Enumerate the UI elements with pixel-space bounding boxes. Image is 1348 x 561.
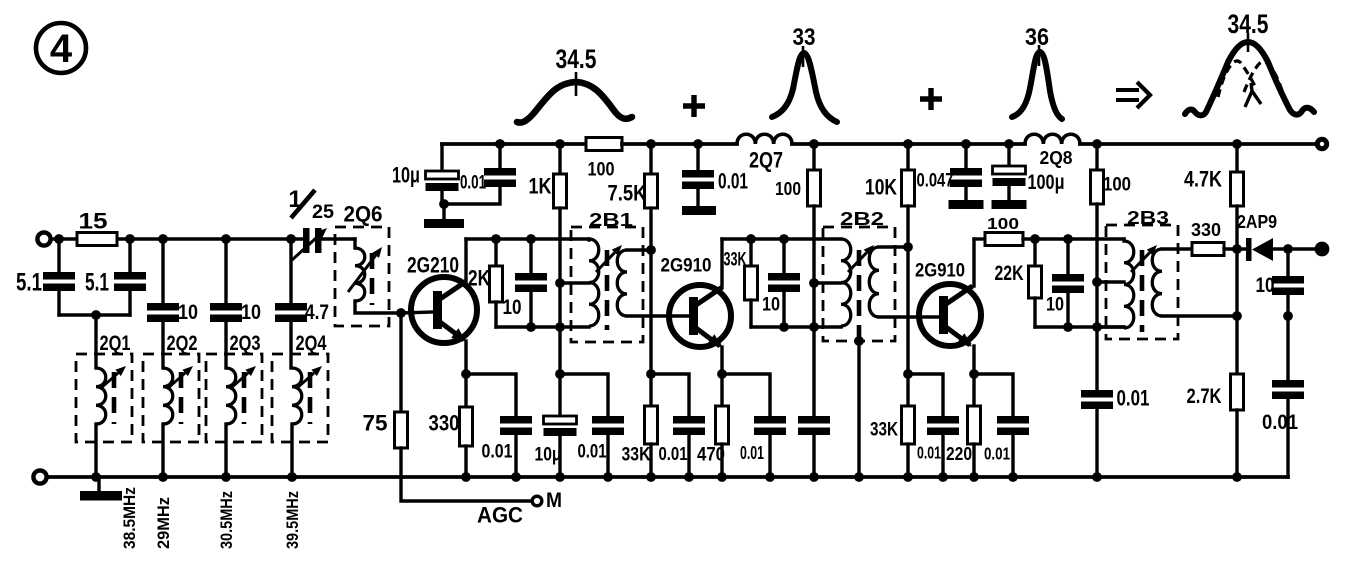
svg-text:100μ: 100μ: [1028, 171, 1065, 194]
adjust arrow of 2Q1: [100, 366, 126, 389]
wire: decoupling 2 to rail: [812, 435, 815, 477]
output terminal (right): [1315, 242, 1330, 257]
wire: 10(3) stub: [1066, 239, 1069, 274]
svg-text:0.01: 0.01: [460, 172, 486, 194]
capacitor 0.01 (base bypass 2): [673, 416, 705, 435]
capacitor 5.1 (first): [43, 272, 75, 291]
wire: 2G210 collector top wire: [466, 237, 589, 240]
junction: top wire at 33K damping: [746, 234, 756, 244]
wire: common to ground: [442, 204, 445, 219]
core of 2Q4: [308, 372, 313, 424]
wire: 2.7K to ground rail: [1235, 410, 1238, 477]
result arrow (double arrow): [1116, 82, 1150, 108]
2B1 secondary coil: [617, 250, 627, 316]
junction: input at 4.7 cap: [286, 234, 296, 244]
wire: 100(3) to 2B3 tap (crosses top wire): [1095, 204, 1098, 282]
resistor 2K (damping, stage 1): [490, 266, 503, 302]
junction: 2B2 secondary top: [903, 242, 913, 252]
tick on composite curve: [1247, 33, 1250, 52]
trap coil box 2Q4: [272, 354, 328, 442]
terminal M (AGC): [532, 496, 542, 506]
diode 2AP9: [1246, 238, 1273, 261]
junction: decoupling common: [439, 199, 449, 209]
wire: 4.7 cap stub: [289, 239, 292, 303]
wire: 2B3 primary bottom out: [1097, 325, 1124, 328]
capacitor 10 (trap 2Q2): [147, 303, 179, 322]
wire: 2G210 emitter down: [464, 341, 467, 374]
resistor 15 (series input): [77, 233, 117, 246]
svg-text:100: 100: [1103, 174, 1131, 196]
tick on curve 34.5: [575, 72, 578, 96]
response curve 34.5 (stage 1): [517, 82, 632, 123]
svg-text:39.5MHz: 39.5MHz: [283, 491, 302, 549]
wire: damping bottom wire 2: [751, 325, 841, 328]
resistor 33K (base bias lower, stage 3): [902, 406, 915, 444]
svg-text:0.01: 0.01: [659, 443, 688, 464]
capacitor 10 (trap 2Q3): [210, 303, 242, 322]
svg-text:2G210: 2G210: [407, 253, 459, 278]
svg-text:2Q6: 2Q6: [344, 202, 383, 227]
capacitor 0.01 (base bypass 3): [927, 416, 959, 435]
svg-text:29MHz: 29MHz: [154, 497, 173, 549]
capacitor 0.047 (rail decoupling): [950, 168, 982, 187]
svg-text:0.01: 0.01: [917, 443, 941, 463]
svg-text:2K: 2K: [468, 266, 490, 291]
resistor 100 (feed, stage 2): [808, 170, 821, 206]
wire: divider line down (crosses base wire): [649, 250, 652, 374]
input coil box 2Q6: [335, 227, 389, 326]
capacitor 10 (damping, stage 2): [768, 273, 800, 292]
wire: base bypass 3 to rail: [941, 435, 944, 477]
svg-text:15: 15: [79, 209, 108, 234]
svg-text:220: 220: [946, 443, 972, 464]
plus sign 1: [683, 95, 705, 117]
junction: 2B3 primary tap: [1092, 277, 1102, 287]
plus sign 2: [920, 88, 942, 110]
wire: 2K stub bottom: [494, 302, 497, 327]
core of 2B1: [605, 250, 610, 330]
adjust arrow of 2Q4: [296, 366, 322, 389]
wire: 10 damping stub: [782, 239, 785, 273]
wire: 470 to ground rail: [720, 444, 723, 477]
wire: 5.1 cap 1 stub: [57, 239, 60, 272]
wire: rail to 7.5K: [649, 144, 652, 174]
capacitor 10u (decoupling stage 1): [544, 416, 577, 436]
adjust arrow of 2Q2: [167, 366, 193, 389]
wire: 10u bottom to common: [442, 186, 500, 204]
junction: top wire 3 at 10 cap: [1063, 234, 1073, 244]
wire: 10 cap stub top: [529, 239, 532, 273]
resistor 100 (feed, stage 3): [1091, 170, 1104, 204]
wire: top rail segment A: [442, 142, 586, 146]
junction: ground rail at em bypass 3: [1008, 472, 1018, 482]
svg-text:2Q1: 2Q1: [100, 332, 131, 355]
response curve 36 (stage 3): [1012, 52, 1062, 119]
junction: rail at 100u: [1004, 139, 1014, 149]
resistor 7.5K (base bias upper): [645, 174, 658, 208]
svg-text:2Q3: 2Q3: [230, 332, 261, 355]
wire: 22K bottom: [1033, 298, 1036, 327]
wire: 10K to secondary top: [906, 206, 909, 247]
svg-text:2Q2: 2Q2: [167, 332, 198, 355]
svg-text:M: M: [546, 489, 562, 512]
capacitor 0.01 (emitter bypass 2): [754, 416, 786, 435]
junction: ground rail at dec 2: [809, 472, 819, 482]
svg-text:4: 4: [50, 27, 73, 71]
wire: rail to 4.7K: [1235, 144, 1238, 172]
wire: 2G910 emitter down: [720, 347, 723, 374]
wire: tap into 2B3: [1097, 280, 1124, 283]
wire: 10 cap bottom: [1286, 295, 1289, 316]
junction: 2B1 secondary top: [646, 245, 656, 255]
wire: node to 33K (3): [906, 374, 909, 406]
wire: 33K damping bottom: [749, 300, 752, 327]
response curve 33 (stage 2): [772, 53, 837, 122]
svg-text:2Q8: 2Q8: [1040, 147, 1073, 168]
core of 2Q6: [370, 253, 375, 305]
wire: 220 to ground rail: [972, 444, 975, 477]
wire: 5.1 cap 2 bottom: [128, 291, 131, 315]
adjust arrow of 2B1: [596, 245, 622, 272]
resistor 100 (series in top rail): [586, 138, 622, 151]
composite response curve 34.5 (solid): [1185, 42, 1314, 115]
svg-text:30.5MHz: 30.5MHz: [217, 491, 236, 549]
wire: ground stub left: [97, 477, 100, 491]
wire: top rail segment B: [622, 142, 737, 146]
core of 2B2: [857, 250, 862, 341]
svg-text:10μ: 10μ: [392, 163, 420, 188]
junction: ground rail at em bypass 2: [765, 472, 775, 482]
ground (0.047): [949, 200, 984, 209]
wire: bypass cap to ground rail: [514, 435, 517, 477]
wire: 2Q6 coil bottom to base node: [355, 301, 401, 313]
wire: down to 2Q1 coil: [94, 315, 97, 368]
adjustable coil 2Q4: [292, 368, 302, 424]
junction: ground rail at base bypass 3: [938, 472, 948, 482]
svg-text:22K: 22K: [995, 262, 1025, 285]
wire: ground rail: [47, 475, 1288, 479]
wire: feed line down: [812, 283, 815, 416]
junction: rail at 0.01 cap: [495, 139, 505, 149]
wire: 2B1 secondary top out: [627, 248, 651, 251]
svg-text:1K: 1K: [529, 174, 552, 199]
svg-text:0.01: 0.01: [718, 169, 748, 194]
svg-text:2AP9: 2AP9: [1237, 211, 1277, 232]
svg-text:10: 10: [762, 294, 780, 316]
resistor 330 (emitter, stage 1): [460, 407, 473, 446]
capacitor 10 (damping, stage 1): [515, 273, 547, 292]
wire: 7.5K to secondary top: [649, 208, 652, 250]
trap coil box 2Q3: [206, 354, 262, 442]
IF transformer box 2B1: [571, 227, 643, 342]
junction: divider bottom node: [646, 369, 656, 379]
junction: ground rail at 2B2 core: [854, 472, 864, 482]
junction: rail at 100 (stage2 feed): [809, 139, 819, 149]
transistor 2G910 (stage 3): [919, 284, 981, 347]
wire: 330 to diode: [1224, 247, 1248, 250]
svg-text:100: 100: [775, 178, 801, 199]
capacitor 10u (rail decoupling): [426, 171, 459, 191]
wire: 0.047 to ground: [964, 187, 967, 200]
wire: emitter bypass 2 to rail: [768, 435, 771, 477]
svg-text:4.7: 4.7: [305, 301, 329, 324]
wire: tap into 2B1: [560, 281, 589, 284]
wire: rail left end down to 10u cap: [440, 144, 443, 171]
ground (rail mid): [682, 206, 716, 215]
junction: detector return: [1283, 311, 1293, 321]
junction: rail at 4.7K: [1232, 139, 1242, 149]
ground (100u): [992, 200, 1027, 209]
wire: 2B1 secondary bottom to base: [627, 314, 690, 317]
trap coil box 2Q1: [76, 354, 132, 442]
junction: top wire at 2K: [491, 234, 501, 244]
wire: 2B3 secondary bottom out: [1162, 314, 1237, 317]
terminal at right end of top rail: [1315, 137, 1329, 151]
adjust arrow of 2B3: [1131, 245, 1157, 272]
svg-text:75: 75: [363, 411, 388, 436]
junction: 2G210 emitter node: [461, 369, 471, 379]
wire: 2B1 primary top bend: [587, 239, 590, 240]
svg-text:0.01: 0.01: [1117, 386, 1150, 411]
junction: damping bottom at 10 (2): [779, 322, 789, 332]
resistor 33K (base bias lower, stage 2): [645, 406, 658, 444]
2B3 primary coil: [1124, 241, 1134, 328]
svg-text:38.5MHz: 38.5MHz: [120, 487, 139, 549]
junction: ground rail at 220: [969, 472, 979, 482]
wire: 2B3 secondary top out: [1162, 247, 1192, 250]
junction: input at 10 cap 2: [221, 234, 231, 244]
wire: 2G910 collector up: [720, 239, 723, 287]
wire: 2Q1 coil to ground rail: [94, 424, 97, 477]
junction: ground rail at 330: [461, 472, 471, 482]
wire: stage2 collector top wire: [722, 237, 841, 240]
svg-text:5.1: 5.1: [16, 269, 42, 297]
wire: 33K(3) to ground rail: [906, 444, 909, 477]
svg-text:10K: 10K: [865, 175, 897, 200]
junction: ground rail at 470: [717, 472, 727, 482]
inductor 2Q8 (series in rail): [1025, 134, 1080, 144]
IF transformer box 2B2: [823, 227, 895, 341]
svg-text:2Q4: 2Q4: [296, 332, 327, 355]
trap coil box 2Q2: [143, 354, 199, 442]
wire: down to 2.7K: [1235, 316, 1238, 374]
dashed component curve (right): [1244, 62, 1284, 97]
capacitor 0.01 (emitter bypass 1): [500, 416, 532, 435]
svg-text:10: 10: [1046, 294, 1064, 316]
label 1/25 (variable capacitor): [288, 186, 334, 223]
2B3 secondary coil: [1152, 249, 1162, 316]
resistor 2.7K (detector load lower): [1231, 374, 1244, 410]
wire: 33K damping stub: [749, 239, 752, 266]
junction: top wire at 10 damping: [779, 234, 789, 244]
label frequency 30.5MHz: [217, 491, 236, 549]
junction: 2G910(3) emitter node: [969, 369, 979, 379]
junction: ground rail at 2.7K: [1232, 472, 1242, 482]
wire: 2B2 core to ground rail: [857, 341, 860, 477]
tick on curve 36: [1038, 45, 1041, 66]
wire: 2B2 secondary bottom to base: [879, 315, 940, 318]
wire: 10 damping bottom: [782, 292, 785, 327]
variable capacitor 1/25 plates: [303, 228, 322, 253]
svg-text:0.01: 0.01: [578, 441, 607, 463]
svg-text:25: 25: [312, 202, 334, 223]
svg-text:2G910: 2G910: [915, 260, 965, 282]
junction: ground rail at 2Q4: [287, 472, 297, 482]
wire: 0.01 mid to ground: [696, 189, 699, 206]
wire: emitter node to bypass cap: [466, 374, 516, 416]
junction: damping bottom at 100 line: [809, 322, 819, 332]
svg-text:10: 10: [503, 296, 522, 319]
resistor 22K (damping, stage 3): [1029, 266, 1042, 298]
label frequency 38.5MHz: [120, 487, 139, 549]
junction: ground rail at 33K(3): [903, 472, 913, 482]
inductor 2Q7 (series in rail): [737, 134, 792, 144]
2B2 primary coil: [841, 239, 851, 326]
capacitor 0.01 (emitter bypass 3): [997, 416, 1029, 435]
wire: damping bottom wire: [496, 325, 589, 328]
core of 2B3: [1140, 250, 1145, 332]
wire: divider line 3 down: [906, 247, 909, 374]
wire: collector to series 100: [974, 237, 985, 240]
wire: 10 cap 1 to coil: [161, 322, 164, 368]
wire: bypass to ground rail: [687, 435, 690, 477]
adjustable coil 2Q2: [163, 368, 173, 424]
wire: 5.1 cap 2 stub: [128, 239, 131, 272]
svg-text:10: 10: [1256, 274, 1275, 297]
capacitor 10 (detector): [1272, 276, 1304, 295]
wire: 22K stub: [1033, 239, 1036, 266]
core of 2Q1: [112, 372, 117, 424]
resistor 33K (damping, stage 2): [745, 266, 758, 300]
wire: node to 0.01: [560, 374, 608, 416]
junction: 2B2 core ground: [854, 336, 864, 346]
dashed component curve (left): [1218, 61, 1257, 97]
adjust arrow of 2Q3: [230, 366, 256, 389]
wire: rail to 100 feed 3: [1095, 144, 1098, 170]
junction: ground rail at dec 3: [1092, 472, 1102, 482]
junction: damping bottom at 100 line (3): [1092, 322, 1102, 332]
resistor 1K (collector feed): [554, 174, 567, 208]
adjustable coil 2Q1: [96, 368, 106, 424]
wire: top rail segment D: [1080, 142, 1316, 146]
junction: ground rail at 2Q2: [158, 472, 168, 482]
wire: 2Q4 coil to ground rail: [290, 424, 293, 477]
svg-text:2.7K: 2.7K: [1187, 385, 1223, 408]
core of 2Q3: [242, 372, 247, 424]
input terminal (bottom left): [33, 470, 46, 483]
junction: rail at 0.01 (mid): [693, 139, 703, 149]
wire: 2G910(3) collector up: [972, 239, 975, 286]
wire: 2Q3 coil to ground rail: [224, 424, 227, 477]
ground (left decoupling): [424, 219, 464, 228]
wire: 4.7K to detector node: [1235, 206, 1238, 249]
junction: ground rail at 33K: [646, 472, 656, 482]
wire: feed line 3 down: [1095, 282, 1098, 390]
junction: ground rail at 2Q3: [221, 472, 231, 482]
resistor 220 (emitter, stage 3): [968, 406, 981, 444]
wire: 5.1 caps common: [59, 313, 130, 316]
junction: input at 5.1 cap 1: [54, 234, 64, 244]
resistor 330 (detector series): [1192, 243, 1224, 256]
junction: ground rail at 0.01 dec 1: [603, 472, 613, 482]
junction: rail at 7.5K: [646, 139, 656, 149]
wire: em bypass 3 to rail: [1011, 435, 1014, 477]
svg-text:0.047: 0.047: [917, 170, 954, 192]
svg-text:33: 33: [793, 24, 816, 51]
wire: rail to 0.01 cap: [498, 144, 501, 168]
svg-text:100: 100: [588, 159, 615, 181]
wire: emitter node to 330: [464, 374, 467, 407]
svg-text:36: 36: [1025, 24, 1049, 51]
resistor 10K (base bias upper 3): [902, 170, 915, 206]
transistor 2G910 (stage 2): [669, 285, 731, 348]
capacitor 0.01 (rail decoupling mid): [682, 170, 714, 189]
wire: output filter to ground rail: [1286, 399, 1289, 477]
ground (main, bottom left): [80, 491, 122, 501]
wire: node to 10u: [558, 374, 561, 416]
junction: top wire at 10 cap: [526, 234, 536, 244]
wire: 0.01 to ground rail: [606, 435, 609, 477]
resistor 100 (series collector 3): [985, 233, 1023, 246]
junction: divider bottom node 3: [903, 369, 913, 379]
wire: 10 cap 1 stub: [161, 239, 164, 303]
wire: detector node down: [1235, 249, 1238, 316]
wire: output node to 10 cap: [1286, 249, 1289, 276]
IF transformer box 2B3: [1106, 225, 1178, 339]
resistor 4.7K (detector load upper): [1231, 172, 1244, 206]
core of 2Q2: [179, 372, 184, 424]
wire: 5.1 cap 1 bottom: [57, 291, 60, 315]
wire: 10(3) bottom: [1066, 293, 1069, 327]
adjust arrow of 1/25: [292, 228, 327, 260]
wire: top rail segment C: [792, 142, 1025, 146]
junction: output node: [1283, 244, 1293, 254]
wire: 2G910(3) emitter down: [972, 346, 975, 374]
junction: ground rail at bypass 1: [511, 472, 521, 482]
capacitor 0.01 (decoupling stage 1): [592, 416, 624, 435]
wire: rail to 0.047: [964, 144, 967, 168]
crossover X mark: [1245, 83, 1261, 107]
wire: rail to 100 feed: [812, 144, 815, 170]
wire: base of 2G210: [401, 312, 433, 313]
svg-text:5.1: 5.1: [85, 269, 109, 297]
junction: decoupling node stage 1: [555, 369, 565, 379]
junction: ground rail at 2Q1: [91, 472, 101, 482]
svg-text:4.7K: 4.7K: [1184, 167, 1222, 192]
svg-text:330: 330: [1191, 219, 1221, 240]
wire: 10u to ground rail: [558, 436, 561, 477]
svg-text:33K: 33K: [870, 419, 899, 441]
junction: top wire 3 at 22K: [1030, 234, 1040, 244]
tick on curve 33: [802, 46, 805, 67]
svg-text:0.01: 0.01: [984, 444, 1010, 464]
capacitor 10 (damping, stage 3): [1052, 274, 1084, 293]
svg-text:7.5K: 7.5K: [608, 181, 647, 206]
wire: 10 cap stub bottom: [529, 292, 532, 327]
wire: input line to 2Q6: [321, 237, 355, 240]
wire: emitter node to bypass 2: [722, 374, 770, 416]
resistor 75 (AGC feed): [395, 412, 408, 448]
junction: damping bottom at 1K line: [555, 322, 565, 332]
wire: 10 cap 2 to coil: [224, 322, 227, 368]
wire: 33K to ground rail: [649, 444, 652, 477]
wire: 10 cap 2 stub: [224, 239, 227, 303]
wire: emitter node to 220: [972, 374, 975, 406]
wire: divider node 3 to bypass: [908, 374, 943, 416]
svg-text:0.01: 0.01: [740, 442, 764, 463]
svg-text:0.01: 0.01: [1262, 411, 1298, 434]
adjust arrow of 2Q6: [348, 247, 382, 292]
